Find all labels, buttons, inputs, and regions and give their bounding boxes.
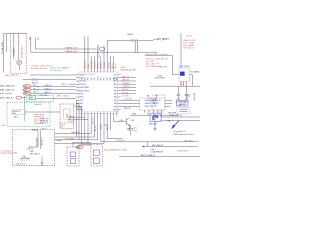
blue callout arrow <box>174 121 179 127</box>
svg-text:VSS: VSS <box>81 77 83 80</box>
svg-text:G F S: G F S <box>180 84 184 86</box>
svg-text:PB8: PB8 <box>114 103 117 105</box>
svg-text:16: 16 <box>91 111 93 113</box>
blue dashed bus stub <box>98 45 100 58</box>
transceiver bottom verticals <box>148 112 162 117</box>
wire dfm row <box>142 145 198 147</box>
wire inside box 2 <box>18 33 20 59</box>
svg-text:Route IN: Route IN <box>34 103 42 106</box>
svg-text:C_5V0_EN: C_5V0_EN <box>123 99 132 101</box>
svg-text:PA1_IO: PA1_IO <box>111 62 114 68</box>
svg-text:R1x 10K NC: R1x 10K NC <box>160 67 169 69</box>
net label tag 1 <box>75 105 78 107</box>
svg-text:F11: F11 <box>33 88 36 90</box>
wire pin19 down <box>103 116 105 143</box>
resistor R104 <box>29 148 33 150</box>
svg-text:«+13V_BATT: «+13V_BATT <box>153 37 169 41</box>
regulator bottom pins <box>181 81 186 86</box>
svg-text:C_5V0: C_5V0 <box>157 75 162 77</box>
svg-text:24: 24 <box>117 111 119 113</box>
svg-text:JMP1: JMP1 <box>30 98 34 100</box>
hub box divider <box>60 122 74 124</box>
green jumper box <box>29 96 35 100</box>
svg-text:■ B1_JMP_K /: ■ B1_JMP_K / <box>0 97 14 100</box>
svg-text:1 2 3 4 5 6 7 8 9 0 1 2: 1 2 3 4 5 6 7 8 9 0 1 2 <box>82 74 96 76</box>
wire USB DP row <box>55 139 98 141</box>
svg-text:R115: R115 <box>120 120 124 122</box>
svg-text:22: 22 <box>110 111 112 113</box>
svg-text:PB14: PB14 <box>80 97 84 99</box>
svg-text:I-CAN_L2: I-CAN_L2 <box>44 87 51 90</box>
fuse F100 <box>22 158 28 161</box>
connector K100 top wire <box>4 32 27 34</box>
wire row w7 <box>119 156 200 158</box>
wire 5V output rail <box>150 85 200 87</box>
MCU bottom pins <box>82 113 117 116</box>
svg-text:+5V0_USB: +5V0_USB <box>39 95 48 97</box>
svg-text:R110 4.7K: R110 4.7K <box>124 108 131 110</box>
wire left pin row 4 stub <box>69 83 77 85</box>
wire regulator out drop <box>190 75 193 87</box>
svg-text:BOOT_0: BOOT_0 <box>98 62 100 69</box>
green wire vertical <box>24 96 26 121</box>
wire usb jog <box>27 147 39 149</box>
buzzer right comp 2 <box>93 158 99 164</box>
svg-text:17: 17 <box>94 111 96 113</box>
svg-text:USB_DP_H: USB_DP_H <box>42 137 44 146</box>
wire j_can row2 <box>161 119 200 121</box>
connector K100 inner bracket <box>5 34 7 52</box>
crystal X1 <box>127 125 133 135</box>
red dashed box buzzer left <box>67 147 79 166</box>
wire left pin row 1 <box>30 74 76 76</box>
svg-text:I-CAN_S: I-CAN_S <box>44 91 52 94</box>
svg-text:15: 15 <box>88 111 90 113</box>
wire between buzzer boxes <box>73 142 91 147</box>
svg-text:W_CAN_H: W_CAN_H <box>13 47 16 56</box>
svg-text:CANH W_CAN_RX: CANH W_CAN_RX <box>144 102 160 105</box>
USB D wires vertical <box>38 131 41 150</box>
svg-text:PD1/OSC: PD1/OSC <box>80 84 88 86</box>
U101 top pins <box>147 96 158 98</box>
filter box F1 <box>177 100 189 106</box>
svg-text:C11: C11 <box>134 127 137 129</box>
speaker M1 circle <box>17 60 22 65</box>
svg-text:VDD_MCU: VDD_MCU <box>85 60 87 69</box>
svg-text:+5V connects 5V: +5V connects 5V <box>173 130 187 133</box>
svg-text:C_SWCLK: C_SWCLK <box>67 121 76 123</box>
svg-text:PB0_AD: PB0_AD <box>103 62 106 69</box>
wire MCU to U101 row2 <box>121 102 140 104</box>
svg-text:PA2_IO: PA2_IO <box>114 62 117 68</box>
CAN transceiver U101 box <box>140 98 165 110</box>
svg-text:I2C_SCL: I2C_SCL <box>122 92 129 94</box>
TVS ground <box>153 122 156 131</box>
red dashed box USB hub <box>60 104 74 128</box>
svg-text:be tested : Vcc level: be tested : Vcc level <box>31 67 48 70</box>
svg-text:21: 21 <box>107 111 109 113</box>
svg-text:R93: R93 <box>33 92 36 94</box>
svg-text:20: 20 <box>104 111 106 113</box>
svg-text:C120: C120 <box>175 102 179 104</box>
svg-text:19: 19 <box>101 111 103 113</box>
svg-text:CAN_FAULT: CAN_FAULT <box>184 139 194 142</box>
green dashed box jumper <box>26 95 54 101</box>
U101 bottom pins <box>145 110 162 112</box>
svg-text:W_CAN_CON1: W_CAN_CON1 <box>1 42 4 54</box>
svg-text:I-CAN_H2: I-CAN_H2 <box>44 84 52 87</box>
svg-text:PB13: PB13 <box>80 94 84 96</box>
svg-text:keep short: keep short <box>40 122 48 125</box>
svg-text:BEEP: BEEP <box>76 147 80 149</box>
wire USB DM row <box>55 136 95 138</box>
svg-text:CR T 30 start: CR T 30 start <box>183 46 194 49</box>
svg-text:10uF: 10uF <box>187 94 190 96</box>
svg-text:U10x: U10x <box>151 149 155 151</box>
wire pin21 down <box>109 116 111 130</box>
red oval CAN_S <box>23 92 31 95</box>
svg-text:PB4: PB4 <box>88 77 90 80</box>
MCU left pins <box>76 75 79 110</box>
svg-text:U102 TPS54: U102 TPS54 <box>179 66 189 68</box>
ground usb <box>40 157 44 166</box>
red dashed box antenna <box>11 33 26 73</box>
wire CAN_H row <box>31 85 76 87</box>
svg-text:+5V0 U: +5V0 U <box>13 116 19 118</box>
wire low_fre long <box>101 141 198 143</box>
capacitor C120 <box>177 86 181 99</box>
svg-text:C1x: C1x <box>157 63 160 65</box>
svg-text:CANL STB: CANL STB <box>144 105 153 108</box>
svg-text:DC 13V: DC 13V <box>187 35 194 37</box>
buzzer comp 1 <box>70 152 76 157</box>
wire pin22 to transistor <box>114 116 125 121</box>
green dashed box USB power <box>7 103 50 127</box>
svg-text:■ B1_CAN_L2): ■ B1_CAN_L2) <box>0 89 14 92</box>
wire CHARGE_LED <box>35 37 96 49</box>
svg-text:PB5: PB5 <box>91 77 93 80</box>
svg-text:PB3_SPI: PB3_SPI <box>122 89 129 91</box>
svg-text:PB1: PB1 <box>104 77 106 80</box>
svg-text:C121: C121 <box>184 102 188 104</box>
svg-text:BT2: BT2 <box>38 37 40 40</box>
resistor R106 on row 2 <box>32 79 38 81</box>
svg-text:F10: F10 <box>33 85 36 87</box>
svg-text:OTHER small contact driver: OTHER small contact driver <box>173 133 194 136</box>
red dashed box buzzer right <box>91 145 102 167</box>
wire module to hub <box>25 111 60 113</box>
wire MCU to U101 row1 <box>121 99 140 101</box>
svg-text:C_EN: C_EN <box>0 125 5 127</box>
red oval BEEP <box>76 146 83 149</box>
wire below speaker <box>18 65 20 70</box>
svg-text:C_SWCLK: C_SWCLK <box>122 86 131 88</box>
buzzer comp 2 <box>70 159 76 164</box>
svg-text:I-CAN_INH: I-CAN_INH <box>71 131 80 134</box>
wire row w3 <box>55 143 105 145</box>
wire 13V drop to regulator <box>180 33 182 68</box>
wire CAN_L row <box>31 89 76 91</box>
svg-text:PB7: PB7 <box>114 100 117 102</box>
svg-text:PB6: PB6 <box>114 97 117 99</box>
capacitor C121 <box>185 86 189 99</box>
regulator U102 box <box>179 68 190 81</box>
svg-text:high-S: high-S <box>61 125 65 127</box>
wire pin18 down <box>100 116 102 142</box>
svg-text:■ B1_Network_: ■ B1_Network_ <box>0 92 14 95</box>
red oval CAN_H <box>23 85 31 88</box>
svg-text:NRST_K: NRST_K <box>101 61 103 69</box>
svg-text:4.7u: 4.7u <box>134 131 137 133</box>
TVS box D100 <box>150 113 161 121</box>
svg-text:R104: R104 <box>29 146 33 148</box>
svg-text:VOLTAGE_5V: VOLTAGE_5V <box>191 70 200 73</box>
wire row w0 <box>55 133 92 135</box>
ground caps <box>177 99 188 100</box>
svg-text:PB1_AD: PB1_AD <box>108 62 111 69</box>
wire swclk left <box>68 116 88 143</box>
svg-text:LOW_FRE: LOW_FRE <box>116 140 125 142</box>
MCU U100 box <box>79 72 118 113</box>
wire CHARGE_EN long <box>31 37 157 52</box>
feedback divider box U103 <box>152 95 165 110</box>
buzzer right comp 1 <box>93 150 99 155</box>
svg-text:C130: C130 <box>153 105 157 107</box>
svg-text:R113: R113 <box>132 114 136 116</box>
svg-text:PB5: PB5 <box>114 94 117 96</box>
red oval CAN_L <box>23 88 31 91</box>
wire left pin row 2 with resistor <box>23 79 76 81</box>
svg-text:Q100: Q100 <box>131 120 135 122</box>
svg-text:PB4_LED: PB4_LED <box>91 61 93 69</box>
svg-text:R106 1K: R106 1K <box>32 83 38 85</box>
svg-text:USB-CHG_H: USB-CHG_H <box>16 163 27 165</box>
blue diode mark <box>154 115 157 118</box>
choke L100 box <box>177 107 190 114</box>
wire regulator input <box>145 56 179 75</box>
USB power module box <box>12 110 25 115</box>
svg-text:DNP_R: DNP_R <box>41 129 48 131</box>
svg-text:RTC backup in: RTC backup in <box>50 70 62 72</box>
blue dotted box USB-A <box>13 130 55 166</box>
svg-text:14: 14 <box>85 111 87 113</box>
wire pa10 down to usb row <box>76 107 82 144</box>
svg-text:BT0: BT0 <box>94 77 96 80</box>
svg-text:PB15: PB15 <box>80 100 84 102</box>
svg-text:23: 23 <box>113 111 115 113</box>
svg-text:LOW_FREQ: LOW_FREQ <box>65 138 76 140</box>
wire MCU to U101 row3 <box>121 106 140 108</box>
svg-text:ANT_GND1 OK: ANT_GND1 OK <box>5 74 19 77</box>
MCU top pin wires <box>85 36 88 72</box>
svg-text:BT1: BT1 <box>29 37 31 40</box>
svg-text:R108 0: R108 0 <box>127 34 133 36</box>
svg-text:C_SWDIO: C_SWDIO <box>122 83 130 85</box>
svg-text:PB5_KEY: PB5_KEY <box>94 60 96 68</box>
wire pin20 jog <box>107 116 122 139</box>
svg-text:CHARGE_EN: CHARGE_EN <box>65 50 77 53</box>
wire pa8 down to usb row <box>75 100 77 137</box>
svg-text:PB9: PB9 <box>114 106 117 108</box>
red oval JMP <box>16 96 22 99</box>
wire pa9 down to usb row <box>76 103 79 139</box>
svg-text:+5V0_SYS EN: +5V0_SYS EN <box>154 78 165 80</box>
svg-text:CHARGE_LED: CHARGE_LED <box>65 46 78 49</box>
regulator U102 body <box>180 72 185 76</box>
resistor R108 <box>131 39 138 41</box>
svg-text:USB_DM_H: USB_DM_H <box>36 136 38 146</box>
MCU right pins <box>118 75 121 110</box>
wire JMP row <box>22 97 76 100</box>
wire pin17 down <box>97 116 99 140</box>
svg-text:JMP_1 2.54mm: JMP_1 2.54mm <box>57 96 70 98</box>
wire pin15 down <box>90 116 92 133</box>
wire transistor down <box>128 125 130 130</box>
transistor Q100 <box>125 118 130 126</box>
wire j_can row <box>161 116 200 118</box>
svg-text:TJA1051 W_CAN_TX: TJA1051 W_CAN_TX <box>144 99 161 102</box>
wire CAN PWR row <box>130 114 178 116</box>
right pin red labels <box>121 78 136 94</box>
U103 right pins <box>165 101 172 107</box>
choke bottom vertical <box>180 114 182 117</box>
svg-text:LOW_FREQ_H: LOW_FREQ_H <box>177 151 189 153</box>
svg-text:+5V0: +5V0 <box>30 151 34 153</box>
svg-text:NRST: NRST <box>97 76 99 80</box>
svg-text:PB0: PB0 <box>101 77 103 80</box>
svg-text:L100: L100 <box>178 105 182 107</box>
svg-text:PB3: PB3 <box>114 87 117 89</box>
svg-text:J_CAN_PWR: J_CAN_PWR <box>169 114 180 117</box>
svg-text:C_SWDIO: C_SWDIO <box>67 116 75 118</box>
wire +13V battery rail <box>107 39 153 41</box>
svg-text:W_CAN_BUS_S: W_CAN_BUS_S <box>21 45 24 58</box>
connector K100 left bracket <box>3 33 5 72</box>
svg-text:N32G435 48LQFP: N32G435 48LQFP <box>120 70 136 72</box>
svg-text:USB_CHG_H: USB_CHG_H <box>30 154 41 156</box>
wire swdio left <box>68 116 85 140</box>
svg-text:PB4: PB4 <box>114 90 117 92</box>
vertical join bottom right <box>147 142 149 147</box>
svg-text:18: 18 <box>97 111 99 113</box>
cap C115 plates <box>135 41 137 53</box>
svg-text:Buzzer(100dB@10cm 2.7kHz): Buzzer(100dB@10cm 2.7kHz) <box>104 148 127 151</box>
red oval highlight top <box>100 47 105 51</box>
svg-text:optional add-on DNP: optional add-on DNP <box>1 152 18 155</box>
svg-text:25V: 25V <box>187 96 190 98</box>
svg-text:PB2: PB2 <box>107 77 109 80</box>
wire inside box 1 <box>13 33 15 59</box>
wire pin16 down <box>93 116 95 137</box>
svg-text:■ B1_CAN_H2): ■ B1_CAN_H2) <box>0 85 15 88</box>
wire CAN_S row <box>31 92 76 94</box>
svg-text:VBUS/1 IN: VBUS/1 IN <box>12 111 21 113</box>
net label tag 2 <box>78 108 81 110</box>
svg-text:OSC_E: OSC_E <box>62 84 67 86</box>
USB hub connector body <box>64 109 70 119</box>
